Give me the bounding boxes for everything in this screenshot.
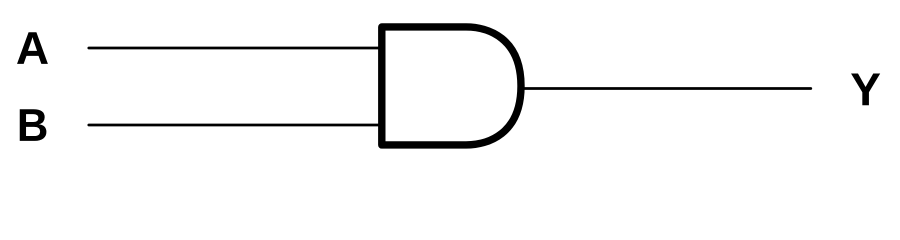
wire output Y (521, 87, 811, 90)
wire input A (89, 47, 382, 50)
node A : input label "A" (17, 32, 48, 64)
AND gate U1 (382, 27, 521, 145)
wire input B (89, 124, 382, 127)
node B : input label "B" (20, 109, 47, 141)
node Y : output label "Y" (851, 74, 880, 106)
